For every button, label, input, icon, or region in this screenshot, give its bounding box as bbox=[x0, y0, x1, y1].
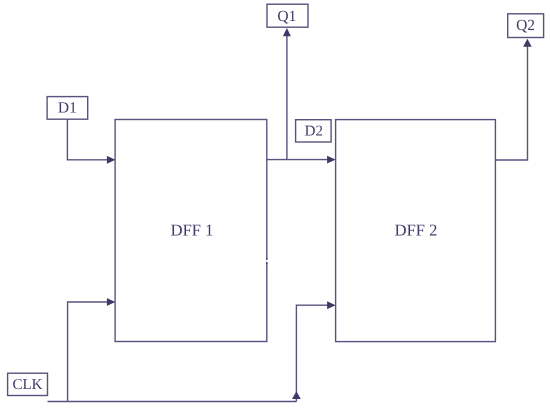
svg-text:D2: D2 bbox=[305, 124, 323, 140]
svg-text:Q1: Q1 bbox=[277, 8, 296, 25]
svg-text:CLK: CLK bbox=[13, 377, 43, 393]
svg-text:Q2: Q2 bbox=[516, 17, 535, 34]
svg-text:D1: D1 bbox=[58, 100, 77, 117]
svg-text:DFF 1: DFF 1 bbox=[171, 221, 214, 240]
svg-text:DFF 2: DFF 2 bbox=[395, 221, 438, 240]
